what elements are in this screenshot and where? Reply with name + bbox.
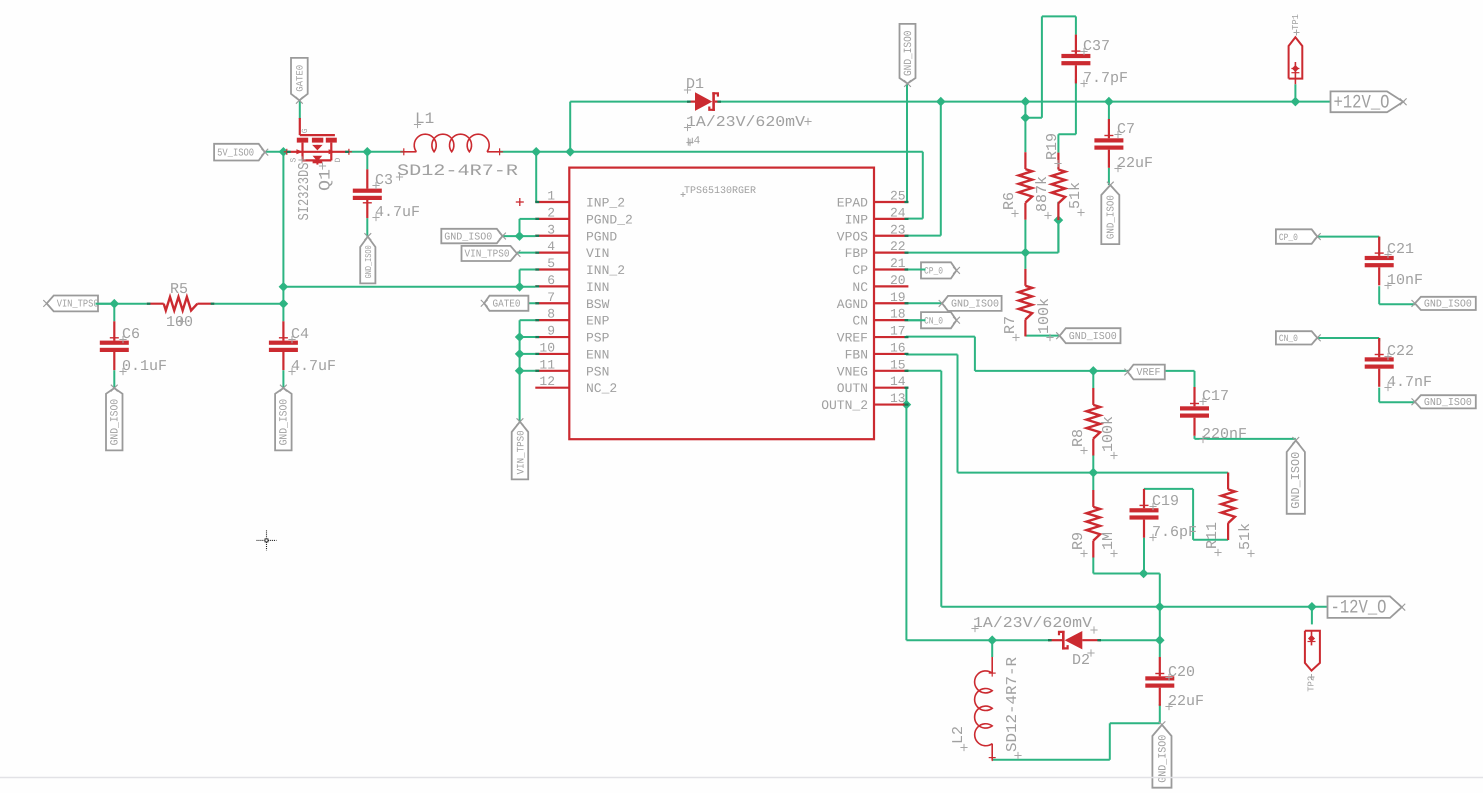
label C19 bbox=[1149, 493, 1197, 541]
svg-text:GND_ISO0: GND_ISO0 bbox=[1069, 331, 1117, 343]
svg-text:L2: L2 bbox=[950, 726, 967, 744]
net label GND_ISO0 (below C20) bbox=[1152, 721, 1171, 787]
svg-text:GND_ISO0: GND_ISO0 bbox=[444, 231, 492, 243]
svg-text:10nF: 10nF bbox=[1387, 272, 1423, 289]
svg-text:GND_ISO0: GND_ISO0 bbox=[1424, 299, 1472, 311]
svg-text:22uF: 22uF bbox=[1117, 155, 1153, 172]
svg-text:1A/23V/620mV: 1A/23V/620mV bbox=[686, 114, 805, 131]
svg-text:5V_ISO0: 5V_ISO0 bbox=[217, 147, 254, 159]
net label CN_0 (right, to C22) bbox=[1276, 331, 1321, 344]
wire GATE0 flag to Q1 gate bbox=[299, 100, 301, 119]
op-amp U1 IC TPS65130RGER boost converter bbox=[516, 168, 909, 440]
svg-text:GND_ISO0: GND_ISO0 bbox=[1157, 735, 1169, 783]
svg-text:18: 18 bbox=[890, 307, 906, 322]
net label GND_ISO0 (below C6) bbox=[106, 385, 123, 451]
svg-text:INP_2: INP_2 bbox=[586, 196, 625, 211]
svg-text:VNEG: VNEG bbox=[837, 364, 868, 379]
svg-text:GND_ISO0: GND_ISO0 bbox=[903, 31, 915, 77]
svg-text:OUTN_2: OUTN_2 bbox=[821, 398, 868, 413]
wire L2 top to D2 anode node bbox=[991, 640, 993, 657]
svg-text:FBP: FBP bbox=[845, 246, 869, 261]
wire overlay at CN_0 flag pin18 bbox=[908, 319, 926, 321]
wire CP_0 to C21 and GND bbox=[1312, 237, 1415, 305]
net label GND_ISO0 (below C4) bbox=[275, 385, 292, 451]
label C4 bbox=[288, 326, 336, 375]
svg-text:100: 100 bbox=[166, 314, 193, 331]
net label GND_ISO0 (top, EPAD) bbox=[900, 24, 916, 87]
svg-text:VPOS: VPOS bbox=[837, 229, 868, 244]
svg-text:PSN: PSN bbox=[586, 364, 609, 379]
svg-text:INP: INP bbox=[845, 212, 869, 227]
net label VIN_TPS0 (pin 4) bbox=[462, 246, 521, 261]
svg-text:0.1uF: 0.1uF bbox=[122, 358, 167, 375]
wire pin21 CP to CP_0 flag bbox=[908, 269, 928, 271]
label C20 bbox=[1165, 664, 1204, 710]
resistor R6 bbox=[1019, 152, 1033, 220]
capacitor C20 bbox=[1145, 657, 1174, 706]
svg-text:C22: C22 bbox=[1387, 343, 1414, 360]
svg-text:24: 24 bbox=[890, 205, 906, 220]
test point TP2 bbox=[1305, 631, 1320, 671]
svg-text:20: 20 bbox=[890, 273, 906, 288]
resistor R11 bbox=[1221, 473, 1235, 541]
svg-text:PGND: PGND bbox=[586, 229, 617, 244]
svg-text:4.7uF: 4.7uF bbox=[291, 358, 336, 375]
svg-text:PGND_2: PGND_2 bbox=[586, 212, 633, 227]
svg-text:SD12-4R7-R: SD12-4R7-R bbox=[397, 162, 519, 180]
wire net EPAD: pin25 up to GND_ISO0 flag bbox=[906, 84, 908, 202]
svg-text:GND_ISO0: GND_ISO0 bbox=[951, 299, 999, 311]
wire net PGND pins 2,3 to GND_ISO0 flag bbox=[503, 219, 536, 241]
svg-text:VIN_TPS0: VIN_TPS0 bbox=[516, 430, 527, 474]
label L2 refdes and value bbox=[950, 657, 1022, 759]
transistor Q1 SI2323DS P-MOSFET bbox=[284, 118, 352, 165]
capacitor C7 bbox=[1094, 119, 1123, 168]
svg-text:Q1: Q1 bbox=[317, 169, 335, 191]
svg-text:C37: C37 bbox=[1083, 38, 1110, 55]
svg-text:8: 8 bbox=[547, 307, 555, 322]
svg-text:+12V_O: +12V_O bbox=[1334, 91, 1390, 113]
svg-text:GND_ISO0: GND_ISO0 bbox=[1289, 452, 1303, 509]
label C17 bbox=[1199, 388, 1247, 443]
net label CP_0 (right, to C21) bbox=[1276, 229, 1321, 244]
wire C19 top to R11 bottom bbox=[1144, 489, 1228, 540]
wire D2 cathode to C20 top bbox=[1099, 639, 1160, 641]
wire pin4 VIN to VIN_TPS0 flag bbox=[517, 252, 535, 254]
wire C17 bottom to GND_ISO0 bbox=[1195, 436, 1296, 439]
net label GATE0 (top, at Q1 gate) bbox=[291, 58, 308, 104]
label TP2 bbox=[1307, 674, 1317, 692]
resistor R8 bbox=[1087, 388, 1101, 456]
label C6 bbox=[119, 326, 167, 375]
svg-text:R11: R11 bbox=[1204, 522, 1221, 549]
net label GND_ISO0 (pin 19 AGND) bbox=[939, 296, 1002, 311]
wire C20 bottom to GND_ISO0 and L2 bottom bbox=[992, 704, 1160, 760]
wire C7 to GND_ISO0 bbox=[1108, 168, 1110, 185]
svg-text:22uF: 22uF bbox=[1168, 693, 1204, 710]
svg-text:R6: R6 bbox=[1001, 192, 1018, 210]
svg-text:2: 2 bbox=[547, 205, 555, 220]
svg-text:C6: C6 bbox=[122, 326, 140, 343]
svg-text:CP_0: CP_0 bbox=[1279, 232, 1298, 243]
svg-text:16: 16 bbox=[890, 340, 906, 355]
wire pin18 CN to CN_0 flag bbox=[908, 319, 928, 321]
svg-text:D: D bbox=[334, 158, 343, 163]
wire net +12V_O rail bbox=[719, 84, 1332, 235]
net label GND_ISO0 (below C3) bbox=[360, 233, 375, 283]
wire net VIN_TPS0 enable bus pins 8-11 bbox=[515, 320, 536, 422]
wire R7 bottom to GND_ISO0 bbox=[1025, 335, 1059, 337]
svg-text:100k: 100k bbox=[1100, 416, 1117, 452]
svg-text:7.7pF: 7.7pF bbox=[1083, 70, 1128, 87]
svg-text:µ4: µ4 bbox=[687, 136, 701, 148]
net label CP_0 (pin 21) bbox=[921, 262, 960, 278]
svg-text:100k: 100k bbox=[1036, 298, 1053, 334]
svg-text:7.6pF: 7.6pF bbox=[1152, 524, 1197, 541]
capacitor C21 bbox=[1365, 237, 1394, 286]
wire net VNEG: pin15 to -12V_O rail bbox=[906, 371, 1332, 612]
net label GND_ISO0 (right of C21) bbox=[1412, 297, 1476, 311]
svg-text:VIN: VIN bbox=[586, 246, 609, 261]
svg-text:220nF: 220nF bbox=[1202, 426, 1247, 443]
svg-text:51k: 51k bbox=[1237, 523, 1254, 550]
svg-text:NC_2: NC_2 bbox=[586, 381, 617, 396]
svg-text:INN_2: INN_2 bbox=[586, 263, 625, 278]
label C7 bbox=[1114, 121, 1153, 172]
resistor R7 bbox=[1019, 269, 1033, 337]
wire R5 right to C4 node bbox=[214, 304, 283, 322]
svg-text:10: 10 bbox=[539, 340, 555, 355]
label C37 bbox=[1080, 38, 1128, 87]
net label +12V_O bbox=[1331, 91, 1407, 113]
label R19 bbox=[1044, 133, 1085, 216]
label R7 bbox=[1002, 298, 1054, 341]
diode D2 schottky bbox=[1048, 631, 1101, 650]
label R6 bbox=[1001, 176, 1052, 219]
svg-text:GND_ISO0: GND_ISO0 bbox=[364, 245, 374, 278]
wire net INP_SW: Q1 drain to L1, L1 to IC pins 1/24 and D1 anode bbox=[349, 102, 923, 219]
wire D1 anode bbox=[570, 101, 689, 103]
svg-text:C19: C19 bbox=[1152, 493, 1179, 510]
window edge line bbox=[0, 777, 1483, 779]
svg-text:R9: R9 bbox=[1070, 532, 1087, 550]
svg-text:C4: C4 bbox=[291, 326, 309, 343]
svg-text:ENN: ENN bbox=[586, 347, 609, 362]
svg-text:23: 23 bbox=[890, 222, 906, 237]
label C21 bbox=[1384, 241, 1423, 289]
inductor L1 bbox=[400, 134, 503, 155]
label Q1 refdes and value bbox=[296, 156, 335, 220]
resistor R5 bbox=[147, 297, 215, 311]
svg-text:G: G bbox=[301, 128, 310, 133]
label D2 bbox=[971, 615, 1097, 669]
wire overlay at CP_0 flag pin21 bbox=[908, 269, 926, 271]
svg-text:9: 9 bbox=[547, 324, 555, 339]
wire net FBN: pin16 to R8 bottom, R9 top, R11 top bbox=[906, 355, 1228, 491]
svg-text:6: 6 bbox=[547, 273, 555, 288]
wire overlay at VIN_TPS0 flag bbox=[96, 303, 115, 305]
svg-text:TPS65130RGER: TPS65130RGER bbox=[684, 186, 756, 197]
net label GATE0 (pin 7) bbox=[481, 296, 529, 311]
net label VREF bbox=[1124, 365, 1164, 380]
svg-text:CN: CN bbox=[852, 314, 868, 329]
wire R8 top lead bbox=[1092, 371, 1094, 388]
svg-text:OUTN: OUTN bbox=[837, 381, 868, 396]
capacitor C19 bbox=[1130, 489, 1159, 538]
svg-text:12: 12 bbox=[539, 374, 555, 389]
svg-text:BSW: BSW bbox=[586, 297, 610, 312]
svg-text:CN_0: CN_0 bbox=[924, 315, 943, 326]
svg-text:C21: C21 bbox=[1387, 241, 1414, 258]
svg-text:S: S bbox=[290, 158, 299, 163]
capacitor C17 bbox=[1180, 387, 1209, 436]
label TP1 bbox=[1291, 14, 1301, 36]
wire net VIN_TPS0 left: flag to R5 and C6 bbox=[93, 299, 147, 321]
svg-text:VREF: VREF bbox=[837, 331, 868, 346]
svg-text:11: 11 bbox=[539, 357, 555, 372]
svg-text:1: 1 bbox=[547, 189, 555, 204]
label R8 bbox=[1070, 416, 1118, 459]
svg-text:1M: 1M bbox=[1100, 532, 1117, 550]
resistor R9 bbox=[1087, 490, 1101, 558]
svg-text:C7: C7 bbox=[1117, 121, 1135, 138]
svg-text:GND_ISO0: GND_ISO0 bbox=[279, 399, 291, 446]
svg-text:ENP: ENP bbox=[586, 314, 610, 329]
net label VIN_TPS0 (far left) bbox=[43, 296, 98, 312]
svg-text:TP1: TP1 bbox=[1291, 14, 1301, 30]
net label GND_ISO0 (below C17) bbox=[1287, 437, 1305, 514]
wire pin19 AGND to GND_ISO0 flag bbox=[908, 302, 942, 304]
svg-text:VIN_TPS0: VIN_TPS0 bbox=[57, 299, 99, 311]
svg-text:22: 22 bbox=[890, 239, 906, 254]
svg-text:D2: D2 bbox=[1072, 652, 1090, 669]
svg-text:887k: 887k bbox=[1034, 176, 1051, 212]
svg-text:NC: NC bbox=[852, 280, 868, 295]
net label VIN_TPS0 (vertical, below pins 8-11) bbox=[512, 418, 529, 479]
capacitor C22 bbox=[1365, 338, 1394, 387]
label D1 bbox=[684, 76, 812, 148]
wire R6 top to +12V and C37 branch bbox=[1021, 16, 1076, 152]
svg-text:13: 13 bbox=[890, 391, 906, 406]
svg-text:SD12-4R7-R: SD12-4R7-R bbox=[1004, 657, 1021, 752]
svg-text:AGND: AGND bbox=[837, 297, 868, 312]
svg-text:1A/23V/620mV: 1A/23V/620mV bbox=[973, 615, 1092, 632]
wire CN_0 to C22 and GND bbox=[1312, 338, 1415, 402]
net label CN_0 (pin 18) bbox=[921, 312, 960, 328]
net label GND_ISO0 (R7 bottom) bbox=[1056, 328, 1120, 343]
net label 5V_ISO0 bbox=[214, 144, 268, 161]
svg-text:INN: INN bbox=[586, 280, 609, 295]
wire C3 bottom to GND_ISO0 bbox=[366, 218, 368, 237]
wire net OUTN: pins 13,14 down to D2 anode bbox=[902, 388, 1050, 645]
wire C4 bottom to GND_ISO0 bbox=[282, 370, 284, 388]
svg-text:VIN_TPS0: VIN_TPS0 bbox=[465, 249, 510, 261]
inductor L2 bbox=[975, 657, 996, 761]
net label GND_ISO0 (below C7) bbox=[1101, 182, 1119, 244]
capacitor C3 bbox=[353, 169, 382, 218]
wire R9 and C19 bottom node to VNEG bbox=[1093, 538, 1164, 657]
crosshair cursor bbox=[257, 530, 277, 550]
svg-text:GND_ISO0: GND_ISO0 bbox=[1424, 397, 1472, 409]
svg-text:25: 25 bbox=[890, 189, 906, 204]
wire C37 bottom to R19 top bbox=[1058, 79, 1076, 152]
svg-text:4.7nF: 4.7nF bbox=[1387, 374, 1432, 391]
wire net INN pins 5,6 to left bus bbox=[283, 270, 535, 292]
svg-text:CP: CP bbox=[852, 263, 868, 278]
svg-text:19: 19 bbox=[890, 290, 906, 305]
svg-text:-12V_O: -12V_O bbox=[1331, 597, 1387, 619]
svg-text:C3: C3 bbox=[375, 172, 393, 189]
svg-text:5: 5 bbox=[547, 256, 555, 271]
svg-text:4: 4 bbox=[547, 239, 555, 254]
svg-text:C17: C17 bbox=[1202, 388, 1229, 405]
wire pin7 BSW to GATE0 flag bbox=[484, 302, 535, 304]
capacitor C6 bbox=[100, 321, 129, 370]
test point TP1 bbox=[1289, 37, 1303, 84]
capacitor C4 bbox=[269, 321, 298, 370]
label C22 bbox=[1384, 343, 1432, 391]
svg-text:51k: 51k bbox=[1067, 182, 1084, 209]
label R11 bbox=[1204, 522, 1255, 557]
label L1 refdes and value bbox=[396, 110, 519, 181]
svg-text:R19: R19 bbox=[1044, 133, 1061, 160]
wire C6 bottom to GND_ISO0 bbox=[113, 370, 115, 388]
svg-text:SI2323DS: SI2323DS bbox=[296, 163, 313, 221]
svg-text:R8: R8 bbox=[1070, 429, 1087, 447]
svg-text:CP_0: CP_0 bbox=[924, 266, 943, 277]
svg-text:R5: R5 bbox=[170, 281, 188, 298]
svg-text:PSP: PSP bbox=[586, 331, 610, 346]
svg-text:15: 15 bbox=[890, 357, 906, 372]
net label GND_ISO0 (right of C22) bbox=[1412, 395, 1476, 409]
svg-text:14: 14 bbox=[890, 374, 906, 389]
wire net 5V_ISO0 from flag to Q1 source and down-left bus bbox=[266, 147, 288, 309]
svg-text:GND_ISO0: GND_ISO0 bbox=[110, 399, 122, 446]
wire net VREF: pin17 to R8 top, C17 top and VREF flag bbox=[906, 337, 1195, 387]
net label -12V_O bbox=[1328, 596, 1406, 618]
wire TP2 to -12V rail bbox=[1311, 607, 1313, 625]
capacitor C37 bbox=[1061, 35, 1090, 84]
svg-text:GATE0: GATE0 bbox=[295, 65, 306, 92]
svg-text:EPAD: EPAD bbox=[837, 196, 868, 211]
svg-text:R7: R7 bbox=[1002, 316, 1019, 334]
svg-text:4.7uF: 4.7uF bbox=[375, 204, 420, 221]
label C3 bbox=[372, 172, 420, 221]
svg-text:7: 7 bbox=[547, 290, 555, 305]
label R9 bbox=[1070, 532, 1118, 557]
svg-text:CN_0: CN_0 bbox=[1279, 333, 1298, 344]
svg-text:GND_ISO0: GND_ISO0 bbox=[1106, 195, 1118, 239]
svg-text:VREF: VREF bbox=[1137, 367, 1161, 379]
svg-text:C20: C20 bbox=[1168, 664, 1195, 681]
svg-text:17: 17 bbox=[890, 324, 906, 339]
svg-text:FBN: FBN bbox=[845, 347, 868, 362]
resistor R19 bbox=[1052, 153, 1066, 221]
net label GND_ISO0 (pins 2,3) bbox=[441, 229, 506, 244]
svg-text:GATE0: GATE0 bbox=[493, 298, 521, 310]
diode D1 schottky bbox=[687, 92, 721, 111]
svg-text:21: 21 bbox=[890, 256, 906, 271]
wire net FBP: pin22 to R6/R19 bottom and R7 top bbox=[908, 202, 1063, 269]
svg-text:3: 3 bbox=[547, 222, 555, 237]
label R5 bbox=[166, 281, 193, 331]
